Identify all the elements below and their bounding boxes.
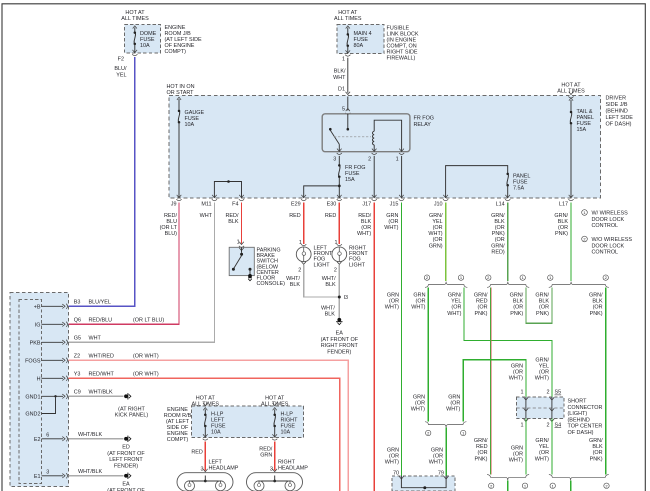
connector E29 — [291, 195, 306, 208]
label GRN (OR WHT) on 428 wire — [411, 293, 425, 311]
note 2 W/O WIRELESS DOOR LOCK CONTROL — [582, 236, 633, 255]
svg-text:1: 1 — [342, 57, 345, 63]
wire GRN/YEL variant1 from J10 brace to short connector pin2 — [464, 288, 552, 397]
svg-text:ALL TIMES: ALL TIMES — [334, 16, 362, 22]
node I junction to E29 — [304, 185, 341, 199]
svg-text:WHT): WHT) — [429, 460, 443, 466]
connector F2 — [114, 50, 137, 78]
svg-text:FOGS: FOGS — [25, 358, 41, 364]
svg-text:WHT): WHT) — [411, 407, 425, 413]
wire relay pin1 to J15 — [401, 156, 403, 198]
svg-text:(OR: (OR — [478, 305, 488, 311]
brace split on L17 wire — [548, 275, 609, 288]
svg-text:10A: 10A — [140, 43, 150, 49]
svg-text:(OR: (OR — [451, 305, 461, 311]
brace split on L14 wire — [486, 275, 530, 288]
node D1 at J/B top edge — [345, 92, 350, 98]
wire M11 WHT to PKB — [69, 203, 215, 343]
svg-text:J17: J17 — [362, 202, 371, 208]
label WHT/BLK below I3 — [321, 305, 335, 317]
pin H — [37, 372, 159, 383]
svg-text:HOT AT: HOT AT — [561, 83, 581, 89]
svg-text:BLK: BLK — [592, 299, 603, 305]
svg-text:GRN/: GRN/ — [510, 293, 524, 299]
svg-text:E30: E30 — [327, 202, 337, 208]
svg-text:GRN: GRN — [386, 213, 398, 219]
svg-text:YEL: YEL — [539, 364, 549, 370]
ground ED (AT FRONT OF LEFT FRONT FENDER) — [107, 436, 145, 470]
svg-text:(OR: (OR — [539, 370, 549, 376]
wire L14 GRN/BLK to brace — [507, 203, 509, 282]
svg-text:10A: 10A — [211, 430, 221, 436]
svg-text:MAIN 4: MAIN 4 — [354, 31, 372, 37]
svg-text:S5: S5 — [555, 390, 562, 396]
label GRN (OR WHT) on J15 wire — [384, 213, 398, 231]
label GRN/BLK (OR PNK) on 552 wire — [535, 293, 549, 317]
svg-text:Z2: Z2 — [74, 354, 80, 360]
note 1 W/ WIRELESS DOOR LOCK CONTROL — [582, 210, 628, 229]
svg-text:CONNECTOR: CONNECTOR — [568, 405, 603, 411]
svg-text:WHT): WHT) — [509, 458, 523, 464]
svg-text:E1: E1 — [34, 474, 41, 480]
svg-text:(OR: (OR — [495, 237, 505, 243]
svg-text:(OR: (OR — [539, 305, 549, 311]
svg-text:6: 6 — [46, 432, 49, 438]
svg-text:RELAY: RELAY — [414, 122, 432, 128]
svg-text:G5: G5 — [74, 336, 81, 342]
svg-text:3: 3 — [270, 467, 273, 473]
svg-text:BLK: BLK — [361, 219, 372, 225]
svg-text:DOOR LOCK: DOOR LOCK — [592, 243, 625, 249]
label WHT/BLK right fog — [322, 276, 336, 288]
svg-text:(OR: (OR — [478, 450, 488, 456]
svg-text:WHT/BLK: WHT/BLK — [89, 390, 114, 396]
svg-text:BLK: BLK — [539, 299, 550, 305]
svg-text:GRN: GRN — [387, 448, 399, 454]
svg-text:RED: RED — [191, 449, 203, 455]
wire E2 WHT/BLK to ED ground — [69, 438, 124, 440]
fuse MAIN 4 FUSE 80A — [346, 26, 372, 54]
svg-text:10A: 10A — [185, 122, 195, 128]
svg-text:HOT AT: HOT AT — [196, 396, 216, 402]
brace split on J10 wire — [424, 275, 467, 288]
svg-text:RED: RED — [289, 213, 301, 219]
svg-text:80A: 80A — [354, 43, 364, 49]
svg-text:(OR: (OR — [433, 237, 443, 243]
svg-text:7.5A: 7.5A — [513, 186, 525, 192]
svg-text:Y3: Y3 — [74, 372, 81, 378]
svg-text:HEADLAMP: HEADLAMP — [278, 466, 308, 472]
Engine Room J/B dome fuse block — [121, 10, 160, 53]
svg-text:GRN/: GRN/ — [589, 438, 603, 444]
connector J17 — [362, 195, 376, 208]
wire GRN (OR WHT) variant2 from J10 brace down to merge brace — [427, 288, 429, 422]
svg-text:1: 1 — [520, 390, 523, 396]
svg-text:WHT): WHT) — [411, 305, 425, 311]
svg-text:EA: EA — [122, 482, 130, 488]
wire WHT/BLK right fog through I3 to EA — [338, 265, 340, 318]
svg-text:15A: 15A — [345, 177, 355, 183]
svg-text:FENDER): FENDER) — [114, 463, 138, 469]
svg-text:DOOR LOCK: DOOR LOCK — [592, 217, 625, 223]
svg-text:GRN/: GRN/ — [474, 293, 488, 299]
lamp RIGHT HEADLAMP — [247, 459, 309, 491]
wire F4 RED/BLK to parking brake switch — [241, 203, 243, 244]
svg-text:(OR: (OR — [416, 299, 426, 305]
svg-text:GRN: GRN — [511, 446, 523, 452]
fuse FR FOG FUSE 15A — [338, 156, 365, 198]
svg-text:WHT): WHT) — [385, 305, 399, 311]
svg-text:LEFT SIDE: LEFT SIDE — [606, 115, 634, 121]
svg-text:RIGHT FRONT: RIGHT FRONT — [321, 343, 359, 349]
svg-text:J10: J10 — [434, 202, 443, 208]
wire GRN below SC pin1 to bottom brace — [525, 419, 527, 475]
svg-text:LEFT FRONT: LEFT FRONT — [109, 457, 143, 463]
pin GND1 — [25, 390, 113, 401]
svg-text:GRN/: GRN/ — [535, 438, 549, 444]
wire RED/GRN to right headlamp — [259, 434, 277, 470]
bottom connector box pins 70 79 — [392, 471, 455, 491]
svg-text:D1: D1 — [338, 87, 345, 93]
svg-text:BLK/: BLK/ — [334, 69, 346, 75]
relay internal coil — [373, 120, 402, 152]
svg-text:RED/: RED/ — [358, 213, 371, 219]
svg-text:PNK): PNK) — [510, 311, 523, 317]
pin PKB — [30, 336, 102, 347]
svg-text:2: 2 — [546, 422, 549, 428]
label GRN (OR WHT) on 463 wire lower — [446, 395, 460, 413]
svg-text:(OR: (OR — [558, 225, 568, 231]
svg-text:(OR: (OR — [513, 305, 523, 311]
svg-text:H: H — [37, 376, 41, 382]
svg-text:BLU/: BLU/ — [114, 66, 127, 72]
label GRN/BLK (OR PNK) lower on 605 wire — [589, 438, 603, 462]
svg-text:CONTROL: CONTROL — [592, 250, 619, 256]
fuse TAIL & PANEL FUSE 15A — [557, 83, 594, 199]
svg-text:(BEHIND: (BEHIND — [568, 417, 590, 423]
svg-text:GRN: GRN — [260, 452, 272, 458]
ground below parking brake switch — [248, 274, 252, 281]
svg-text:J9: J9 — [171, 202, 177, 208]
wire E29 RED to left fog light — [303, 203, 305, 244]
svg-text:FR FOG: FR FOG — [414, 116, 435, 122]
pin E2 — [34, 432, 103, 443]
svg-text:15A: 15A — [577, 127, 587, 133]
svg-text:GRN/: GRN/ — [554, 213, 568, 219]
Fusible Link Block — [334, 10, 384, 54]
svg-text:W/O WIRELESS: W/O WIRELESS — [592, 237, 633, 243]
svg-text:PKB: PKB — [30, 340, 41, 346]
svg-text:(OR: (OR — [593, 305, 603, 311]
svg-text:COMPT): COMPT) — [165, 49, 187, 55]
connector L14 — [496, 195, 511, 208]
svg-text:PNK): PNK) — [590, 311, 603, 317]
svg-text:GRN: GRN — [413, 293, 425, 299]
svg-text:ED: ED — [122, 445, 130, 451]
ground EA (AT FRONT OF...) lower left — [107, 473, 145, 491]
svg-text:WHT): WHT) — [509, 376, 523, 382]
svg-text:M11: M11 — [201, 202, 211, 208]
node I3 — [338, 295, 348, 301]
svg-text:RED: RED — [476, 299, 488, 305]
svg-text:GND2: GND2 — [25, 412, 40, 418]
svg-text:WHT): WHT) — [446, 407, 460, 413]
svg-text:FENDER): FENDER) — [327, 349, 351, 355]
svg-text:CONTROL: CONTROL — [592, 223, 619, 229]
svg-text:L17: L17 — [559, 202, 568, 208]
label GRN/RED (OR PNK) lower on 490 wire — [474, 438, 488, 462]
svg-text:WHT: WHT — [200, 213, 213, 219]
label GRN/BLK (OR PNK) on 526 wire — [510, 293, 524, 317]
wire J10 GRN/YEL to brace — [445, 203, 447, 282]
lamp RIGHT FRONT FOG LIGHT — [332, 240, 369, 273]
svg-text:HOT AT: HOT AT — [125, 10, 145, 16]
svg-text:WHT): WHT) — [428, 231, 442, 237]
connector F4 — [232, 195, 244, 208]
svg-text:GRN/: GRN/ — [491, 213, 505, 219]
svg-text:2: 2 — [546, 390, 549, 396]
label GRN/YEL (OR WHT) (OR GRN) on J10 wire — [428, 213, 443, 250]
svg-text:GRN: GRN — [413, 395, 425, 401]
svg-text:F4: F4 — [232, 202, 238, 208]
wire GRN/RED variant2 from L14 brace down to bottom brace — [489, 288, 492, 475]
svg-text:LIGHT: LIGHT — [349, 262, 366, 268]
svg-text:L14: L14 — [496, 202, 505, 208]
svg-text:(LIGHT): (LIGHT) — [568, 411, 588, 417]
connector J15 — [390, 195, 404, 208]
relay pins 3 2 1 — [333, 149, 404, 163]
wire BLK/WHT to D1 — [347, 58, 349, 93]
svg-text:KICK PANEL): KICK PANEL) — [115, 413, 149, 419]
svg-text:B3: B3 — [74, 300, 81, 306]
svg-text:(OR: (OR — [361, 225, 371, 231]
svg-text:I3: I3 — [344, 295, 349, 301]
svg-text:RED: RED — [476, 444, 488, 450]
svg-text:(OR LT: (OR LT — [160, 225, 178, 231]
label GRN (OR WHT) on J15 wire mid — [385, 293, 399, 311]
ECU outer dashed box — [10, 293, 69, 487]
wire GRN/BLK variant2 from L17 brace down to bottom brace — [605, 288, 607, 475]
svg-text:3: 3 — [46, 469, 49, 475]
svg-text:E2: E2 — [34, 437, 41, 443]
svg-text:3: 3 — [200, 467, 203, 473]
svg-text:(AT FRONT OF: (AT FRONT OF — [107, 451, 145, 457]
svg-text:(OR: (OR — [388, 219, 398, 225]
label GRN/BLK (OR PNK) (OR GRN/RED) on L14 wire — [491, 213, 505, 256]
pin FOGS — [25, 354, 159, 365]
svg-text:(OR WHT): (OR WHT) — [133, 354, 159, 360]
svg-text:OF DASH): OF DASH) — [606, 122, 632, 128]
label GRN (OR WHT) above SC pin1 — [509, 364, 523, 382]
svg-text:FIREWALL): FIREWALL) — [387, 56, 416, 62]
svg-text:(OR: (OR — [389, 454, 399, 460]
wire J17 RED/BLK down off page — [373, 203, 375, 491]
svg-text:(OR: (OR — [389, 299, 399, 305]
svg-text:(OR WHT): (OR WHT) — [133, 372, 159, 378]
svg-text:BLK: BLK — [325, 282, 336, 288]
svg-text:(OR: (OR — [539, 450, 549, 456]
svg-text:(OR LT BLU): (OR LT BLU) — [133, 318, 164, 324]
relay internal switch — [329, 114, 371, 152]
label GRN (OR WHT) on J15 wire lower — [385, 448, 399, 466]
svg-text:BLK: BLK — [513, 299, 524, 305]
svg-text:GRN/: GRN/ — [448, 293, 462, 299]
svg-text:WHT): WHT) — [385, 460, 399, 466]
svg-text:GRN/: GRN/ — [491, 243, 505, 249]
svg-text:SHORT: SHORT — [568, 399, 588, 405]
svg-text:YEL: YEL — [116, 72, 126, 78]
ground EA (AT FRONT OF RIGHT FRONT FENDER) — [321, 318, 359, 356]
svg-text:BLK: BLK — [290, 282, 301, 288]
svg-text:(OR: (OR — [593, 450, 603, 456]
svg-text:WHT: WHT — [333, 75, 346, 81]
pin +B — [34, 300, 111, 311]
svg-text:BLU: BLU — [166, 219, 177, 225]
ECU inner dashed box — [19, 300, 42, 484]
svg-text:GRN/: GRN/ — [589, 293, 603, 299]
Engine Room R/B headlamp fuse box — [192, 396, 304, 438]
fuse GAUGE FUSE 10A — [177, 97, 205, 198]
svg-text:PNK): PNK) — [475, 456, 488, 462]
svg-text:PNK): PNK) — [492, 231, 505, 237]
connector E30 — [327, 195, 342, 208]
svg-text:LEFT: LEFT — [209, 459, 223, 465]
svg-text:GRN/: GRN/ — [535, 293, 549, 299]
wire H RED/WHT to bottom — [69, 378, 340, 491]
label GRN/YEL (OR WHT) on 464 wire — [447, 293, 462, 317]
wire E1 WHT/BLK to EA ground — [69, 475, 124, 477]
svg-text:SIDE J/B: SIDE J/B — [606, 102, 628, 108]
svg-text:GRN: GRN — [431, 448, 443, 454]
svg-text:S4: S4 — [555, 422, 562, 428]
svg-text:IG: IG — [35, 322, 41, 328]
pin GND2 tied to GND1 — [25, 396, 55, 417]
wire WHT/BLK left fog to node I3 — [304, 265, 340, 297]
svg-text:PNK): PNK) — [475, 311, 488, 317]
svg-text:F2: F2 — [118, 57, 124, 63]
parking brake switch box — [229, 247, 254, 275]
connector 1 at parking brake switch — [237, 240, 244, 248]
svg-text:GRN: GRN — [511, 364, 523, 370]
svg-text:GRN: GRN — [448, 395, 460, 401]
wire FOGS WHT/RED to bottom — [69, 360, 349, 491]
bottom merge brace 552/605 — [549, 475, 609, 491]
svg-text:(OR: (OR — [495, 225, 505, 231]
fuse PANEL FUSE 7.5A with J10 branch — [446, 166, 531, 198]
svg-text:WHT): WHT) — [535, 456, 549, 462]
svg-text:GND1: GND1 — [25, 394, 40, 400]
svg-text:E29: E29 — [291, 202, 301, 208]
label GRN (OR WHT) lower on 526 wire — [509, 446, 523, 464]
svg-text:PNK): PNK) — [536, 311, 549, 317]
svg-text:TOP CENTER: TOP CENTER — [568, 424, 603, 430]
svg-text:WHT/RED: WHT/RED — [89, 354, 114, 360]
svg-text:CONSOLE): CONSOLE) — [257, 281, 286, 287]
svg-text:HOT IN ON: HOT IN ON — [167, 84, 195, 90]
svg-text:10A: 10A — [281, 430, 291, 436]
label GRN/BLK (OR PNK) on 605 wire — [589, 293, 603, 317]
svg-text:WHT): WHT) — [384, 225, 398, 231]
label RED/BLK on F4 wire — [226, 213, 239, 225]
wire merged GRN down to pin 79 — [445, 428, 447, 476]
svg-text:(OR: (OR — [433, 454, 443, 460]
svg-text:+B: +B — [34, 304, 41, 310]
svg-text:OF DASH): OF DASH) — [568, 430, 594, 436]
label GRN (OR WHT) on merged wire — [429, 448, 443, 466]
fuse H-LP LEFT FUSE 10A — [203, 403, 226, 438]
svg-text:RED): RED) — [491, 249, 504, 255]
svg-text:WHT/: WHT/ — [322, 276, 336, 282]
wire GRN/BLK variant1 U-link L14 to L17 — [526, 288, 552, 324]
svg-text:2: 2 — [334, 267, 337, 273]
svg-text:(AT FRONT OF: (AT FRONT OF — [321, 337, 359, 343]
svg-text:WHT): WHT) — [535, 376, 549, 382]
wire BLU/YEL F2 to +B — [69, 57, 135, 306]
svg-text:(OR: (OR — [433, 225, 443, 231]
svg-text:WHT): WHT) — [447, 311, 461, 317]
svg-text:J15: J15 — [390, 202, 399, 208]
label RED/BLK (OR WHT) on J17 wire — [357, 213, 372, 237]
svg-text:BLU): BLU) — [165, 231, 178, 237]
connector L17 — [559, 195, 574, 208]
connector J9 — [171, 195, 182, 208]
wire L17 GRN/BLK to brace — [570, 203, 572, 282]
wire bridge M11-F4 — [214, 180, 241, 198]
svg-text:BLU/YEL: BLU/YEL — [89, 300, 111, 306]
svg-text:WHT: WHT — [89, 336, 102, 342]
bottom merge brace 490/526 — [487, 475, 529, 491]
merge brace to single GRN wire — [425, 422, 466, 436]
wire C9 WHT/BLK to ground — [69, 395, 124, 397]
pin IG — [35, 318, 165, 329]
svg-text:YEL: YEL — [539, 444, 549, 450]
short connector box S5/S4 — [517, 390, 565, 429]
svg-text:WHT/BLK: WHT/BLK — [78, 469, 103, 475]
svg-text:FUSE: FUSE — [354, 37, 369, 43]
svg-text:C9: C9 — [74, 390, 81, 396]
svg-text:Q6: Q6 — [74, 318, 81, 324]
svg-text:1: 1 — [396, 157, 399, 163]
svg-text:BLK: BLK — [558, 219, 569, 225]
svg-text:(OR: (OR — [415, 401, 425, 407]
svg-text:RED/: RED/ — [226, 213, 239, 219]
svg-text:1: 1 — [520, 422, 523, 428]
fuse H-LP RIGHT FUSE 10A — [272, 403, 298, 438]
svg-text:RIGHT: RIGHT — [278, 459, 296, 465]
label GRN (OR WHT) on 428 wire lower — [411, 395, 425, 413]
label WHT/BLK left fog — [286, 276, 300, 288]
lamp LEFT FRONT FOG LIGHT — [296, 240, 333, 273]
svg-text:3: 3 — [333, 157, 336, 163]
svg-text:GRN/: GRN/ — [535, 357, 549, 363]
svg-text:DRIVER: DRIVER — [606, 96, 627, 102]
connector 1 below main4 — [333, 50, 350, 92]
label GRN/YEL (OR WHT) lower on 552 wire — [535, 438, 550, 462]
svg-text:WHT): WHT) — [357, 231, 371, 237]
svg-text:HOT AT: HOT AT — [338, 10, 358, 16]
svg-text:HEADLAMP: HEADLAMP — [209, 466, 239, 472]
wire E30 RED to right fog light — [338, 203, 340, 244]
svg-text:YEL: YEL — [451, 299, 461, 305]
svg-text:GRN: GRN — [387, 293, 399, 299]
svg-text:ALL TIMES: ALL TIMES — [121, 16, 149, 22]
label GRN/YEL (OR WHT) above SC pin2 — [535, 357, 550, 381]
svg-text:(OR: (OR — [513, 370, 523, 376]
svg-text:BLK: BLK — [592, 444, 603, 450]
svg-text:2: 2 — [298, 267, 301, 273]
svg-text:RED/: RED/ — [164, 213, 177, 219]
ground (AT RIGHT KICK PANEL) — [115, 393, 149, 419]
